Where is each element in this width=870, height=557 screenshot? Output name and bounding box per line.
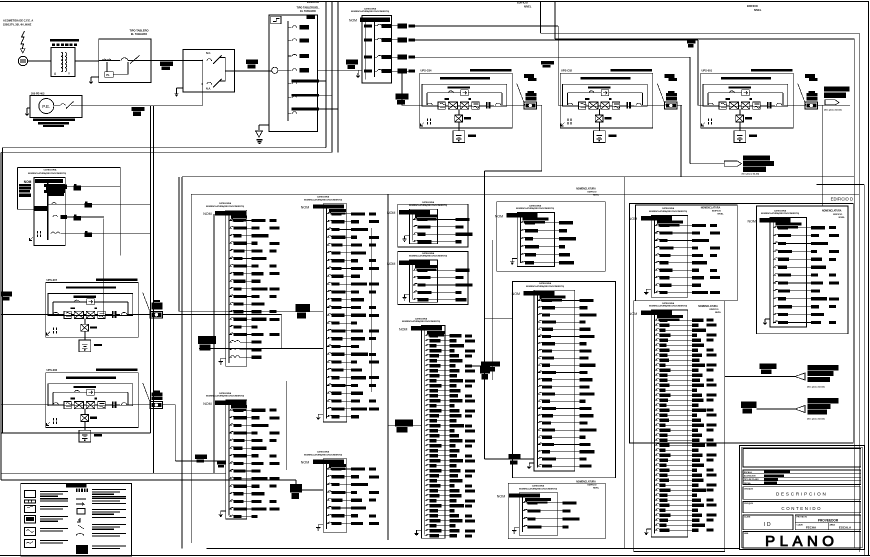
feed label panel pD xyxy=(198,336,216,351)
UPS unit UPS-006 xyxy=(46,368,168,442)
svg-text:NOM: NOM xyxy=(512,292,520,296)
svg-text:CATEGORIA: CATEGORIA xyxy=(317,196,330,199)
caption above pM xyxy=(822,210,846,219)
svg-text:NOMENCLATURA: NOMENCLATURA xyxy=(698,305,718,308)
svg-text:200-PE-403: 200-PE-403 xyxy=(31,92,45,95)
plan reference arrow middle xyxy=(724,156,774,176)
svg-text:NOM: NOM xyxy=(497,495,505,499)
EDIFICIO D region box xyxy=(629,197,853,444)
caption above pL xyxy=(698,305,722,314)
enclosure pK xyxy=(636,205,738,301)
svg-text:CROQUIS: CROQUIS xyxy=(744,503,754,505)
UPS unit UPS-001 xyxy=(701,69,823,143)
svg-text:PLANO: PLANO xyxy=(765,533,838,550)
svg-text:PROYECTO: PROYECTO xyxy=(797,517,808,519)
feed label panel pJ xyxy=(395,419,413,432)
level caption top right xyxy=(747,5,762,12)
panel pJ xyxy=(399,317,475,538)
svg-text:NOMENCLATURA: NOMENCLATURA xyxy=(822,210,842,213)
panel pF xyxy=(301,196,379,423)
svg-text:CATEGORIA: CATEGORIA xyxy=(532,485,545,488)
cable label on UPS-C04 drop xyxy=(396,94,409,105)
panel pC xyxy=(19,169,151,246)
wire riser feeder 1 xyxy=(3,1,327,433)
svg-text:ID: ID xyxy=(764,522,772,528)
wire left verticals to bottom xyxy=(1,106,323,490)
enclosure pH xyxy=(398,204,468,247)
svg-text:NOMENCLATURA(RECONOCIMIENTO): NOMENCLATURA(RECONOCIMIENTO) xyxy=(28,172,67,175)
panel pB tablero general xyxy=(351,7,392,83)
wire loop around pC xyxy=(17,167,120,314)
wire meter to transformer T1 xyxy=(28,60,51,62)
feed label panel pG xyxy=(290,484,302,499)
svg-text:NOMENCLATURA(RECONOCIMIENTO): NOMENCLATURA(RECONOCIMIENTO) xyxy=(409,255,448,258)
UPS unit UPS-C02 xyxy=(560,69,682,143)
svg-text:FECHA: FECHA xyxy=(806,525,817,529)
cable label on generator wire xyxy=(132,107,145,116)
svg-text:CATEGORIA: CATEGORIA xyxy=(44,169,57,172)
wire pB row2 to UPS-001 xyxy=(415,39,701,105)
svg-text:ESCALA: ESCALA xyxy=(744,471,752,474)
svg-text:NOMENCLATURA: NOMENCLATURA xyxy=(576,187,596,190)
svg-text:NIVEL: NIVEL xyxy=(593,195,600,197)
enclosure pI xyxy=(398,252,468,305)
wire to transfer switch xyxy=(151,60,183,62)
svg-text:NOMENCLATURA(RECONOCIMIENTO): NOMENCLATURA(RECONOCIMIENTO) xyxy=(526,285,565,288)
svg-text:EDIFICIO: EDIFICIO xyxy=(712,211,721,213)
svg-text:CATEGORIA: CATEGORIA xyxy=(539,282,552,285)
wire loop around middle region xyxy=(182,2,854,549)
sheet border top xyxy=(0,1,868,3)
svg-text:NOMENCLATURA(RECONOCIMIENTO): NOMENCLATURA(RECONOCIMIENTO) xyxy=(304,453,343,456)
svg-text:NOM: NOM xyxy=(387,262,395,266)
svg-text:NIVEL: NIVEL xyxy=(524,5,532,8)
svg-text:EDIFICIO D: EDIFICIO D xyxy=(831,197,853,202)
svg-text:AREA: AREA xyxy=(830,523,836,526)
cable label after main switch xyxy=(160,62,173,70)
caption above pO xyxy=(576,187,600,196)
feed label panel pE xyxy=(195,455,226,468)
level caption top center xyxy=(517,2,532,9)
svg-text:UPS-001: UPS-001 xyxy=(702,69,713,73)
svg-text:NIVEL: NIVEL xyxy=(754,9,762,12)
svg-text:FECHA: FECHA xyxy=(744,482,751,485)
automatic transfer switch ATS xyxy=(174,50,234,97)
svg-text:CATEGORIA: CATEGORIA xyxy=(219,392,232,395)
svg-text:CATEGORIA: CATEGORIA xyxy=(422,201,435,204)
tablero general breaker rows xyxy=(356,20,415,78)
wire riser feeder 3 xyxy=(319,1,338,152)
wire feeder into pJ xyxy=(388,425,422,427)
svg-text:NOMENCLATURA(RECONOCIMIENTO): NOMENCLATURA(RECONOCIMIENTO) xyxy=(516,207,555,210)
svg-text:(Ver plano 02-03): (Ver plano 02-03) xyxy=(742,174,760,176)
svg-text:EDIFICIO: EDIFICIO xyxy=(587,192,596,194)
pB name bar xyxy=(349,18,390,23)
svg-text:220/127V, 3Ø ,4H ,60HZ: 220/127V, 3Ø ,4H ,60HZ xyxy=(3,23,32,27)
wire pB row4 to UPS-C04 xyxy=(402,71,420,105)
svg-text:NOM: NOM xyxy=(24,180,32,184)
svg-text:(Ver plano 02-03): (Ver plano 02-03) xyxy=(824,110,842,112)
wire UPS-C02 output drop xyxy=(677,105,681,177)
svg-text:NIVEL: NIVEL xyxy=(717,214,724,216)
svg-text:NOM: NOM xyxy=(349,19,357,23)
wire right of pF xyxy=(214,194,388,540)
pD spare circuit rows xyxy=(229,341,261,359)
svg-text:NOMENCLATURA(RECONOCIMIENTO): NOMENCLATURA(RECONOCIMIENTO) xyxy=(206,395,245,398)
incoming lightning arrow xyxy=(21,31,25,53)
cable label right of pJ xyxy=(466,361,500,371)
svg-text:DESCRIPCION: DESCRIPCION xyxy=(776,492,828,497)
caption above pK xyxy=(701,207,725,216)
enclosure pM xyxy=(757,206,849,334)
plan reference arrow right xyxy=(824,87,850,112)
svg-text:N.C.: N.C. xyxy=(206,52,211,55)
wire generator to ATS N.A. xyxy=(71,85,202,106)
svg-text:NIVEL: NIVEL xyxy=(715,312,722,314)
main distribution panel EDIFICIO xyxy=(259,0,320,131)
svg-text:ACOMETIDA DE C.F.E. A: ACOMETIDA DE C.F.E. A xyxy=(3,19,33,23)
svg-text:NOMENCLATURA(RECONOCIMIENTO): NOMENCLATURA(RECONOCIMIENTO) xyxy=(206,205,245,208)
svg-text:NOM: NOM xyxy=(301,206,309,210)
wire feeder into pF xyxy=(179,177,323,311)
panel pN xyxy=(497,485,580,536)
svg-text:LAM.: LAM. xyxy=(744,532,749,535)
caption above pN xyxy=(576,480,600,489)
svg-text:EDIFICIO: EDIFICIO xyxy=(747,5,758,8)
svg-text:NOM: NOM xyxy=(629,312,637,316)
svg-text:NOM: NOM xyxy=(399,327,407,331)
panel pP xyxy=(512,282,597,471)
svg-text:EDIFICIO: EDIFICIO xyxy=(307,0,320,4)
svg-text:UPS-C04: UPS-C04 xyxy=(421,69,433,73)
svg-text:UPS-006: UPS-006 xyxy=(47,368,58,372)
svg-text:ESCALA: ESCALA xyxy=(839,525,852,529)
wire pB row1 to UPS-C02 xyxy=(415,26,561,105)
svg-text:CATEGORIA: CATEGORIA xyxy=(422,252,435,255)
title block xyxy=(740,446,865,550)
feed label UPS-007 xyxy=(1,292,12,301)
svg-text:NOMENCLATURA: NOMENCLATURA xyxy=(701,207,721,210)
feed label pC xyxy=(35,206,47,211)
cable label near UPS-C02 drop xyxy=(541,61,554,68)
main switch box TIPO TABLERO xyxy=(89,29,151,84)
transformer T1 xyxy=(50,39,79,77)
enclosure pL xyxy=(634,301,725,552)
feed label panel pF xyxy=(295,304,310,319)
svg-text:NOMENCLATURA(RECONOCIMIENTO): NOMENCLATURA(RECONOCIMIENTO) xyxy=(304,198,343,201)
svg-text:CATEGORIA: CATEGORIA xyxy=(219,202,232,205)
plan arrow EDIFICIO D lower xyxy=(741,398,839,421)
svg-text:UPS-007: UPS-007 xyxy=(47,278,58,282)
feed label mid vertical xyxy=(480,366,490,380)
plan arrow EDIFICIO D upper xyxy=(725,363,839,388)
main ground electrode xyxy=(256,131,263,144)
wire main panel to tablero general xyxy=(318,69,363,71)
wire UPS-007 output to pD xyxy=(163,315,287,471)
svg-text:TIPO TABLERO: TIPO TABLERO xyxy=(129,29,148,33)
svg-text:NOMENCLATURA(RECONOCIMIENTO): NOMENCLATURA(RECONOCIMIENTO) xyxy=(351,10,390,13)
svg-text:CROQUIS: CROQUIS xyxy=(744,489,754,491)
utility meter M1 xyxy=(18,56,27,65)
svg-text:EDIFICIO: EDIFICIO xyxy=(587,485,596,487)
svg-text:NOMENCLATURA(RECONOCIMIENTO): NOMENCLATURA(RECONOCIMIENTO) xyxy=(519,487,558,490)
svg-text:NIVEL: NIVEL xyxy=(839,217,846,219)
svg-text:NOMENCLATURA(RECONOCIMIENTO): NOMENCLATURA(RECONOCIMIENTO) xyxy=(402,320,441,323)
svg-text:EDIFICIO: EDIFICIO xyxy=(709,309,718,311)
wire feeder into UPS-007 xyxy=(1,314,46,316)
svg-text:UPS-C02: UPS-C02 xyxy=(561,69,573,73)
service feed text xyxy=(3,19,33,27)
svg-text:NOM: NOM xyxy=(629,217,637,221)
inner wire loop xyxy=(191,2,864,557)
wire UPS-001 output to plan arrow xyxy=(818,105,850,206)
enclosure pO xyxy=(497,202,605,272)
svg-text:N.A.: N.A. xyxy=(206,88,211,91)
svg-text:CLAVE: CLAVE xyxy=(744,516,751,519)
svg-text:EDIFICIO: EDIFICIO xyxy=(517,2,528,5)
svg-text:P.E.: P.E. xyxy=(42,104,50,109)
svg-text:NOMENCLATURA(RECONOCIMIENTO): NOMENCLATURA(RECONOCIMIENTO) xyxy=(649,305,688,308)
svg-text:NOM: NOM xyxy=(387,211,395,215)
svg-text:Y: Y xyxy=(68,72,70,76)
wire feeder into pD xyxy=(199,348,323,350)
panel pK xyxy=(629,207,720,297)
wire feeder into UPS-006 xyxy=(1,404,46,406)
panel pO xyxy=(495,204,576,266)
wire transformer to main switch box xyxy=(75,60,99,62)
wire ATS to main panel xyxy=(235,70,272,72)
svg-text:CATEGORIA: CATEGORIA xyxy=(774,209,787,212)
svg-text:NOMENCLATURA(RECONOCIMIENTO): NOMENCLATURA(RECONOCIMIENTO) xyxy=(649,210,688,213)
enclosure pN xyxy=(508,483,605,539)
feed label panel pP xyxy=(508,454,520,464)
svg-text:CATEGORIA: CATEGORIA xyxy=(317,451,330,454)
svg-text:EL TABLERO: EL TABLERO xyxy=(300,10,316,13)
svg-text:CATEGORIA: CATEGORIA xyxy=(662,207,675,210)
wire UPS-006 output to pE xyxy=(163,405,226,461)
svg-text:CATEGORIA: CATEGORIA xyxy=(662,302,675,305)
legend box xyxy=(21,484,132,557)
svg-text:NOM: NOM xyxy=(495,214,503,218)
svg-text:CLAVE: CLAVE xyxy=(797,523,804,526)
svg-text:CONTENIDO: CONTENIDO xyxy=(781,506,822,511)
emergency generator P.E. xyxy=(25,92,82,127)
panel pM xyxy=(748,209,840,327)
panel pL xyxy=(629,302,717,537)
wire UPS-C04 output drop xyxy=(485,105,542,459)
svg-text:PROVEEDOR: PROVEEDOR xyxy=(818,519,839,523)
svg-text:NOM: NOM xyxy=(748,219,756,223)
svg-text:EDIFICIO: EDIFICIO xyxy=(833,214,842,216)
svg-text:CATEGORIA: CATEGORIA xyxy=(529,204,542,207)
sheet border bottom xyxy=(0,549,870,556)
sheet border right xyxy=(868,1,870,556)
panel pI xyxy=(387,252,473,302)
svg-text:PL: PL xyxy=(106,73,110,77)
panel pG xyxy=(301,451,379,533)
cable label after ATS xyxy=(246,59,258,68)
enclosure pP xyxy=(513,282,616,478)
svg-text:NIVEL: NIVEL xyxy=(593,488,600,490)
svg-text:(Ver plano 02-03): (Ver plano 02-03) xyxy=(807,386,825,388)
svg-text:CATEGORIA: CATEGORIA xyxy=(415,317,428,320)
svg-text:CATEGORIA: CATEGORIA xyxy=(364,7,377,10)
svg-text:NOMENCLATURA(RECONOCIMIENTO): NOMENCLATURA(RECONOCIMIENTO) xyxy=(761,212,800,215)
UPS unit UPS-007 xyxy=(46,278,168,352)
svg-text:NOMENCLATURA(RECONOCIMIENTO): NOMENCLATURA(RECONOCIMIENTO) xyxy=(409,204,448,207)
wire pB row3 to plan arrow xyxy=(415,57,724,164)
feed label tablero general xyxy=(346,59,358,69)
svg-text:(Ver plano 02-03): (Ver plano 02-03) xyxy=(807,419,825,421)
wire riser feeder 2 xyxy=(1,1,332,480)
wire vertical mid-right xyxy=(492,177,624,549)
svg-text:NOM: NOM xyxy=(203,402,211,406)
wire feeder pO region xyxy=(485,319,535,459)
panel pE xyxy=(203,392,279,519)
svg-text:NOM: NOM xyxy=(203,212,211,216)
svg-text:NOM: NOM xyxy=(301,461,309,465)
svg-text:EL TABLERO: EL TABLERO xyxy=(131,32,147,36)
panel pH xyxy=(387,201,473,244)
panel pD xyxy=(203,202,279,366)
UPS unit UPS-C04 xyxy=(420,69,542,143)
svg-text:NOMENCLATURA: NOMENCLATURA xyxy=(576,480,596,483)
